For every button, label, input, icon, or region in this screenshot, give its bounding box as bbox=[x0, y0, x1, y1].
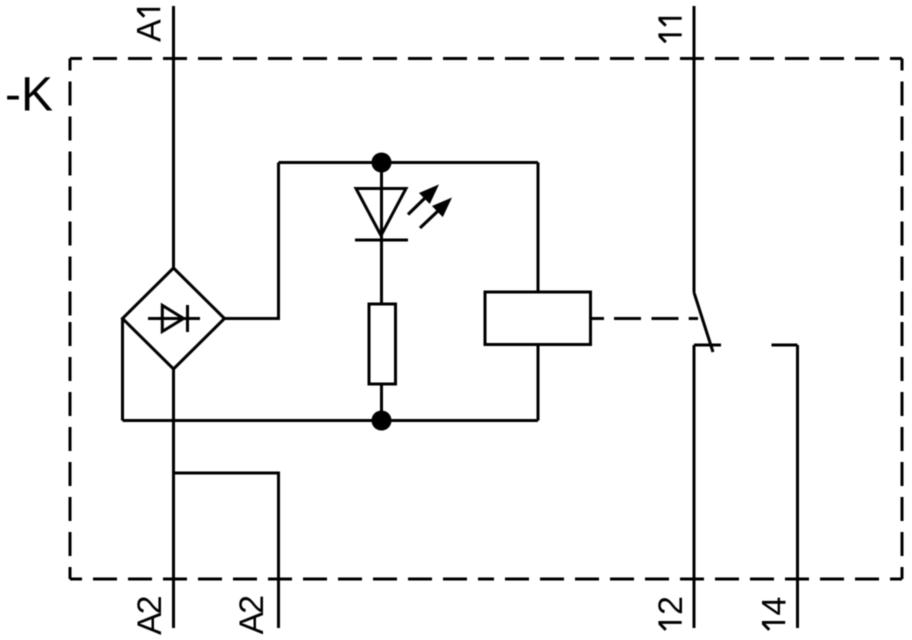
svg-text:4: 4 bbox=[756, 597, 794, 616]
wire resistor to bottom node bbox=[380, 384, 383, 421]
wire bottom rail bbox=[123, 419, 539, 422]
svg-text:A2: A2 bbox=[131, 596, 169, 635]
wire bridge left vertex down bbox=[121, 319, 124, 421]
junction node top bbox=[372, 153, 392, 173]
wire top rail down to coil top bbox=[537, 163, 540, 293]
relay boundary dashed box bbox=[70, 59, 902, 580]
wire A2 branch to second terminal bbox=[174, 473, 279, 628]
wire LED branch vertical bbox=[380, 163, 383, 305]
resistor R1 bbox=[369, 304, 396, 384]
bridge rectifier diamond bbox=[123, 268, 225, 369]
changeover contact lever bbox=[694, 293, 713, 353]
wire top rail bbox=[279, 161, 539, 164]
wire A2 lower vertical bbox=[172, 369, 175, 629]
wire coil bottom down to bottom rail bbox=[537, 345, 540, 421]
NC contact 12 seat bar bbox=[694, 344, 721, 347]
terminal label 11 bbox=[658, 18, 681, 25]
LED emission arrow 2 bbox=[420, 199, 450, 228]
NO contact 14 seat bar bbox=[772, 344, 798, 347]
wire bridge right vertex up to top rail bbox=[225, 163, 279, 319]
svg-text:2: 2 bbox=[652, 596, 690, 615]
relay coil K bbox=[485, 292, 591, 345]
mechanical link dashed bbox=[591, 317, 699, 320]
wire 14 terminal vertical bbox=[796, 345, 799, 628]
junction node bottom bbox=[372, 411, 392, 431]
wire A1 terminal vertical bbox=[172, 6, 175, 269]
LED D1 cathode bar bbox=[355, 239, 408, 242]
LED emission arrow 1 bbox=[408, 186, 437, 214]
LED D1 triangle bbox=[356, 189, 406, 236]
svg-text:A: A bbox=[131, 19, 169, 42]
svg-text:-K: -K bbox=[5, 69, 53, 122]
svg-text:A2: A2 bbox=[233, 596, 271, 635]
wire 11 terminal vertical bbox=[693, 6, 696, 293]
wire 12 terminal vertical bbox=[693, 345, 696, 628]
bridge internal diode symbol bbox=[148, 305, 200, 332]
